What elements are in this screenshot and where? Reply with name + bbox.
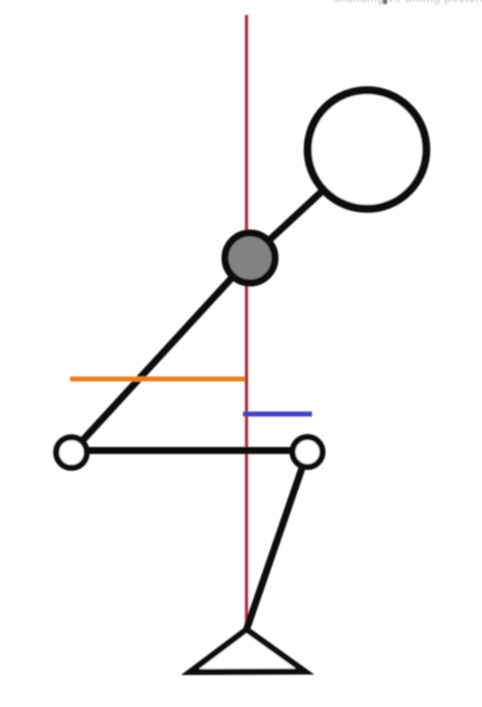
svg-text:Standing vs Sitting posture ga: Standing vs Sitting posture gap xyxy=(334,0,482,5)
knee joint xyxy=(293,437,323,467)
foot triangle xyxy=(190,630,305,673)
neck segment (shoulder to head) xyxy=(250,150,367,259)
plumb line (red vertical) xyxy=(245,15,248,629)
thigh segment (hip to knee) xyxy=(72,447,308,454)
torso segment (hip to shoulder) xyxy=(72,258,251,453)
blue reference line xyxy=(243,412,312,417)
darker descender blob in cropped caption xyxy=(383,0,387,4)
shin segment (knee to ankle) xyxy=(247,452,308,630)
shoulder joint (gray) xyxy=(225,233,275,283)
head circle xyxy=(308,90,427,209)
orange reference line xyxy=(70,377,245,382)
hip joint xyxy=(56,437,87,468)
